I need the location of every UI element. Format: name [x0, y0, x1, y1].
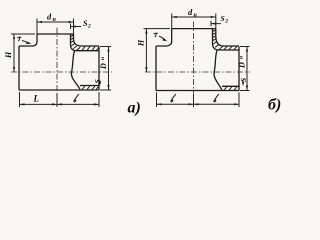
tee B hatch bottom wall — [224, 87, 237, 91]
bottom dim A line — [20, 103, 100, 105]
bottom dim B arrows — [157, 103, 240, 105]
tee B hatch top wall — [224, 46, 237, 49]
fillet label g A — [17, 37, 21, 41]
dim Dn B arrows — [246, 47, 248, 91]
svg-text:2: 2 — [87, 24, 91, 30]
tee A wavy break line — [71, 51, 80, 89]
tee A branch axis — [56, 28, 58, 93]
dim dn A arrows — [37, 21, 74, 23]
fillet label g B — [154, 33, 158, 37]
dim H A extension + line — [11, 34, 35, 72]
dim Dn A ext + line — [100, 47, 111, 91]
tee A body outline — [19, 34, 99, 90]
dim Dn B ext + line — [240, 47, 250, 91]
tee A hatch bottom wall — [82, 86, 99, 90]
svg-text:н: н — [100, 57, 106, 60]
svg-text:б): б) — [268, 97, 281, 114]
bottom dim B line — [157, 103, 240, 105]
svg-text:2: 2 — [224, 19, 228, 25]
svg-text:а): а) — [128, 100, 141, 117]
svg-text:H: H — [4, 51, 13, 59]
svg-text:L: L — [33, 94, 40, 104]
dim l label A — [74, 94, 79, 102]
tee B hatch branch wall — [213, 30, 223, 50]
tee B branch inner wall (section) — [213, 29, 240, 50]
tee B body outline — [156, 29, 239, 91]
tee A hatch top wall — [82, 46, 99, 50]
tee B horizontal axis — [145, 71, 250, 73]
tee A bore bottom line (section) — [80, 85, 99, 87]
dim l label B right — [214, 94, 219, 102]
tee B bore bottom line — [222, 85, 239, 87]
dim H B arrows — [145, 29, 147, 72]
dim H B extension + line — [144, 29, 171, 72]
svg-text:S: S — [221, 14, 225, 23]
svg-text:н: н — [239, 56, 245, 59]
dim S2 A arrow — [71, 24, 82, 30]
svg-text:H: H — [137, 39, 146, 47]
tee B branch axis — [193, 22, 195, 94]
dim l label B left — [171, 94, 176, 102]
tee A branch inner wall (section) — [71, 34, 100, 51]
bottom dims B ext lines — [157, 93, 240, 108]
dim Dn A arrows — [107, 47, 109, 91]
dim dn B line — [172, 14, 216, 29]
dim dn B arrows — [172, 16, 216, 18]
bottom dim A arrows — [20, 103, 100, 105]
tee A hatch branch wall — [71, 35, 81, 50]
bottom dims A ext lines — [20, 92, 100, 107]
dim H A arrows — [13, 34, 15, 72]
svg-text:D: D — [238, 62, 247, 69]
tee A horizontal axis — [11, 71, 112, 73]
svg-text:D: D — [99, 63, 108, 70]
tee B wavy break line — [214, 50, 222, 90]
dim dn A line — [37, 19, 74, 35]
dim S2 B arrow — [211, 21, 221, 26]
